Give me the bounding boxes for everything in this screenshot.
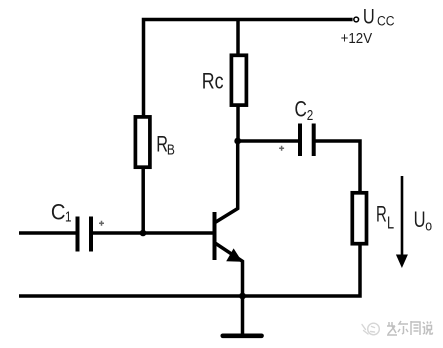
svg-text:U: U [363, 5, 375, 28]
svg-text:+12V: +12V [341, 30, 373, 47]
svg-text:C: C [51, 201, 66, 225]
svg-text:Rc: Rc [202, 70, 224, 94]
svg-text:o: o [425, 218, 432, 234]
svg-text:U: U [414, 208, 426, 233]
svg-text:2: 2 [307, 107, 314, 124]
svg-text:C: C [295, 97, 307, 122]
svg-text:1: 1 [65, 208, 72, 225]
svg-text:L: L [387, 213, 394, 233]
svg-text:R: R [376, 202, 387, 227]
svg-text:CC: CC [377, 13, 395, 29]
svg-text:B: B [167, 141, 175, 158]
